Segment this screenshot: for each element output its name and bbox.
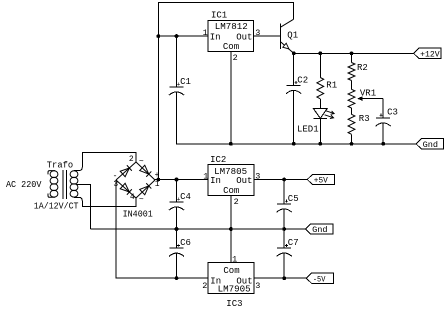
svg-text:R3: R3 bbox=[359, 114, 370, 124]
port Gnd tag mid bbox=[306, 224, 333, 235]
svg-text:C7: C7 bbox=[288, 238, 299, 248]
pin 1 label bridge bbox=[155, 180, 160, 189]
svg-text:2: 2 bbox=[234, 197, 239, 207]
wire top rail from left riser to Q1 collector bbox=[158, 2, 293, 179]
svg-text:LED1: LED1 bbox=[297, 125, 319, 135]
svg-text:LM7905: LM7905 bbox=[218, 285, 251, 295]
svg-text:Out: Out bbox=[236, 176, 252, 186]
capacitor C6 bbox=[169, 229, 191, 278]
diode bridge D2 (top-right) bbox=[136, 162, 155, 180]
svg-text:IC1: IC1 bbox=[211, 10, 227, 20]
svg-text:AC 220V: AC 220V bbox=[6, 180, 42, 190]
svg-text:R1: R1 bbox=[326, 81, 337, 91]
svg-text:1: 1 bbox=[203, 172, 208, 182]
svg-text:~: ~ bbox=[139, 195, 144, 204]
svg-text:IC3: IC3 bbox=[226, 299, 242, 309]
svg-text:VR1: VR1 bbox=[360, 89, 376, 99]
text 1A/12V/CT label bbox=[34, 202, 79, 212]
pin 4 label bridge bbox=[130, 193, 135, 202]
wire top ground rail bbox=[177, 92, 417, 144]
capacitor C4 bbox=[169, 180, 191, 230]
diode bridge D3 (left-bottom) bbox=[116, 180, 136, 198]
svg-text:Q1: Q1 bbox=[287, 31, 298, 41]
node junction C4/mid-gnd bbox=[175, 227, 179, 231]
node junction R3/gnd bbox=[350, 142, 354, 146]
wire IC2 com to mid ground rail bbox=[230, 196, 232, 229]
wire secondary bottom to bridge pin4 bbox=[74, 197, 136, 206]
svg-text:2: 2 bbox=[129, 155, 134, 164]
pin 1 label IC2 bbox=[203, 172, 208, 182]
text IN4001 label bbox=[123, 210, 153, 220]
capacitor C5 bbox=[277, 180, 299, 230]
svg-text:Com: Com bbox=[223, 42, 239, 52]
svg-text:3: 3 bbox=[255, 281, 260, 291]
svg-text:1: 1 bbox=[155, 180, 160, 189]
pin 2 label IC1 bbox=[233, 53, 238, 63]
svg-text:3: 3 bbox=[255, 28, 260, 38]
svg-text:C3: C3 bbox=[387, 107, 398, 117]
capacitor C3 bbox=[376, 107, 398, 144]
wire IC1 input from rail to pin 1 bbox=[158, 35, 208, 37]
svg-text:Gnd: Gnd bbox=[423, 140, 439, 150]
transformer T1 secondary winding bbox=[70, 171, 78, 197]
svg-text:4: 4 bbox=[130, 193, 135, 202]
svg-text:Gnd: Gnd bbox=[312, 225, 328, 235]
node junction LED1/gnd bbox=[318, 142, 322, 146]
wire +12V rail (Q1 emitter to tag) bbox=[294, 52, 414, 54]
svg-text:-5V: -5V bbox=[313, 274, 326, 284]
LED LED1 bbox=[297, 109, 334, 144]
pin 3 label IC2 bbox=[255, 172, 260, 182]
capacitor C1 bbox=[169, 36, 191, 144]
pin 3 label IC1 bbox=[255, 28, 260, 38]
pin 2 label bridge bbox=[129, 155, 134, 164]
svg-text:LM7812: LM7812 bbox=[215, 22, 248, 32]
pin + label bridge bbox=[155, 171, 160, 180]
transistor Q1 NPN bbox=[281, 19, 299, 53]
svg-text:Com: Com bbox=[223, 266, 239, 276]
svg-text:In: In bbox=[210, 176, 221, 186]
port +12V output tag bbox=[414, 48, 441, 59]
wire mid ground rail (CT to Gnd tag) bbox=[91, 228, 306, 230]
node junction C3/gnd bbox=[381, 142, 385, 146]
transformer T1 primary winding bbox=[48, 171, 58, 198]
svg-text:C4: C4 bbox=[180, 192, 191, 202]
svg-text:C5: C5 bbox=[288, 194, 299, 204]
wire IC2 out to +5V tag bbox=[254, 179, 307, 181]
op-amp U1 regulator IC1 LM7812 box bbox=[208, 10, 253, 52]
text AC 220V label bbox=[6, 180, 42, 190]
text Trafo label bbox=[47, 160, 73, 170]
pin ~ label bridge top bbox=[139, 158, 144, 167]
resistor R1 bbox=[317, 53, 337, 108]
svg-text:2: 2 bbox=[233, 53, 238, 63]
svg-text:C1: C1 bbox=[180, 77, 191, 87]
diode bridge D4 (bottom-right) bbox=[136, 180, 155, 198]
pin - label bridge bbox=[113, 172, 118, 181]
diode bridge D1 (left-top) bbox=[116, 162, 136, 180]
pin 3 label bridge bbox=[113, 180, 118, 189]
svg-text:1A/12V/CT: 1A/12V/CT bbox=[34, 202, 79, 212]
node junction C1 top bbox=[175, 34, 179, 38]
wire IC1 out to Q1 base bbox=[253, 35, 280, 37]
svg-text:IN4001: IN4001 bbox=[123, 210, 153, 220]
svg-text:2: 2 bbox=[202, 281, 207, 291]
svg-text:R2: R2 bbox=[357, 63, 368, 73]
svg-text:+5V: +5V bbox=[314, 176, 329, 186]
svg-text:Out: Out bbox=[236, 33, 252, 43]
wire IC3 out to -5V tag bbox=[254, 277, 306, 279]
wire bridge plus to IC2 input bbox=[155, 179, 208, 181]
pin ~ label bridge bottom bbox=[139, 195, 144, 204]
resistor R2 bbox=[348, 53, 368, 80]
node junction C5/mid-gnd bbox=[282, 227, 286, 231]
node junction rail/IC1-in bbox=[156, 34, 160, 38]
svg-text:In: In bbox=[210, 33, 221, 43]
port +5V output tag bbox=[307, 174, 334, 185]
svg-text:Trafo: Trafo bbox=[47, 160, 73, 170]
svg-text:IC2: IC2 bbox=[210, 155, 226, 165]
pin 2 label IC3 bbox=[202, 281, 207, 291]
node junction C7/out bbox=[282, 276, 286, 280]
svg-text:3: 3 bbox=[255, 172, 260, 182]
op-amp U2 regulator IC2 LM7805 box bbox=[208, 155, 254, 196]
pin 3 label IC3 bbox=[255, 281, 260, 291]
wire IC3 com pin1 to mid ground rail bbox=[230, 229, 232, 263]
node junction R2 top bbox=[350, 51, 354, 55]
svg-text:C2: C2 bbox=[297, 75, 308, 85]
svg-text:~: ~ bbox=[139, 158, 144, 167]
node junction C5 top bbox=[282, 178, 286, 182]
pin 1 label IC1 bbox=[203, 28, 208, 38]
pin 1 label IC3 bbox=[232, 254, 237, 264]
pin 2 label IC2 bbox=[234, 197, 239, 207]
node junction C2/gnd bbox=[292, 142, 296, 146]
wire VR1 wiper to C3 bbox=[382, 99, 384, 118]
node junction R1 top bbox=[318, 51, 322, 55]
capacitor C7 bbox=[277, 229, 299, 278]
wire bridge minus to IC3 input bbox=[116, 180, 208, 278]
node junction emitter/C2 bbox=[292, 51, 296, 55]
svg-text:+12V: +12V bbox=[420, 50, 440, 60]
svg-text:Com: Com bbox=[223, 186, 239, 196]
op-amp U3 regulator IC3 LM7905 box bbox=[208, 263, 254, 309]
port Gnd tag top bbox=[416, 139, 443, 150]
svg-text:1: 1 bbox=[232, 254, 237, 264]
node junction IC2-com/mid-gnd bbox=[229, 227, 233, 231]
node junction IC1-com/gnd bbox=[229, 142, 233, 146]
potentiometer VR1 bbox=[348, 81, 383, 109]
node junction bridge+/rail bbox=[156, 178, 160, 182]
port -5V output tag bbox=[306, 273, 333, 284]
wire secondary top to bridge pin2 bbox=[74, 153, 136, 171]
node junction C4 top bbox=[175, 178, 179, 182]
transformer T1 core bbox=[63, 170, 67, 199]
svg-text:C6: C6 bbox=[180, 238, 191, 248]
capacitor C2 bbox=[286, 53, 308, 144]
resistor R3 bbox=[348, 108, 370, 144]
wire IC1 com pin2 to ground rail bbox=[230, 51, 232, 144]
node junction C6/neg rail bbox=[175, 276, 179, 280]
wire secondary CT to mid ground rail bbox=[76, 184, 91, 229]
svg-text:1: 1 bbox=[203, 28, 208, 38]
